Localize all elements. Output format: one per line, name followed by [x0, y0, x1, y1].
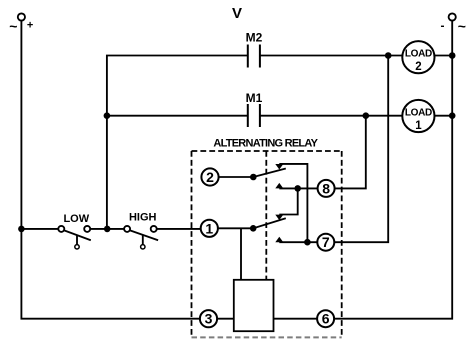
- svg-text:2: 2: [206, 169, 214, 185]
- svg-text:~: ~: [9, 18, 17, 34]
- svg-text:1: 1: [205, 220, 213, 236]
- svg-text:2: 2: [415, 61, 421, 73]
- svg-text:M1: M1: [246, 91, 263, 105]
- svg-text:LOAD: LOAD: [405, 108, 432, 119]
- svg-text:3: 3: [205, 311, 213, 327]
- svg-text:HIGH: HIGH: [129, 211, 157, 223]
- svg-text:~: ~: [458, 18, 466, 34]
- svg-text:M2: M2: [246, 30, 263, 44]
- svg-text:1: 1: [415, 120, 422, 132]
- svg-text:7: 7: [322, 234, 330, 250]
- svg-text:-: -: [441, 18, 445, 32]
- svg-text:6: 6: [322, 311, 330, 327]
- svg-text:V: V: [232, 5, 242, 22]
- svg-text:LOAD: LOAD: [405, 49, 432, 60]
- svg-text:LOW: LOW: [63, 213, 89, 225]
- svg-text:+: +: [27, 20, 33, 32]
- svg-text:8: 8: [322, 180, 330, 196]
- svg-text:ALTERNATING RELAY: ALTERNATING RELAY: [213, 137, 318, 149]
